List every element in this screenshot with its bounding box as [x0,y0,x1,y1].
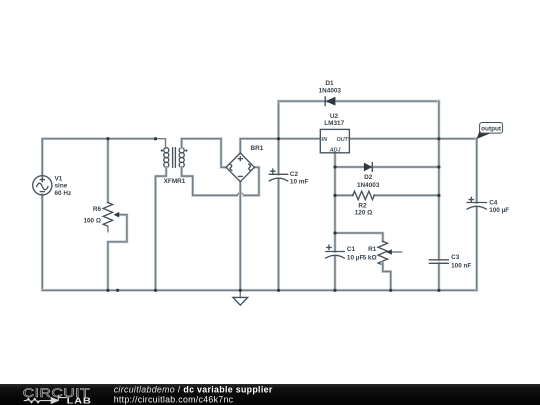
node OUT / D1 junction [437,137,440,140]
node C1 bottom junction [333,289,336,292]
diode D2 [335,163,439,189]
svg-text:C4: C4 [489,199,498,206]
svg-text:R1: R1 [368,246,377,253]
potentiometer R6 [83,203,126,291]
node R1 bottom junction [389,289,392,292]
transformer XFMR1 [161,148,188,186]
node C3 bottom junction [437,289,440,292]
wire C2 bottom [277,180,280,291]
svg-text:100 Ω: 100 Ω [83,217,101,224]
svg-text:C1: C1 [347,246,356,253]
svg-text:ADJ: ADJ [329,147,342,153]
node D2 / OUT junction [437,165,440,168]
wire C2 top [277,139,280,175]
capacitor C4 [467,197,509,214]
node ADJ / C1 / R1 junction [333,231,336,234]
wire bridge bottom to ground [239,182,242,291]
svg-text:C2: C2 [290,171,299,178]
wire secondary bottom to bridge right [244,167,259,195]
svg-text:U2: U2 [330,113,339,120]
svg-text:5 kΩ: 5 kΩ [363,254,377,261]
svg-text:V1: V1 [55,175,63,182]
resistor R2 [335,191,439,216]
svg-text:D2: D2 [364,174,373,181]
svg-text:OUT: OUT [337,137,349,143]
svg-text:120 Ω: 120 Ω [355,210,373,217]
capacitor C2 [269,169,308,185]
svg-text:1N4003: 1N4003 [357,182,380,189]
svg-text:BR1: BR1 [251,145,264,152]
node extra dot on rail [116,289,119,292]
op-amp U2 LM317 [320,113,349,154]
svg-text:10 µF: 10 µF [347,254,364,261]
svg-text:IN: IN [322,137,327,143]
svg-text:R6: R6 [93,206,102,213]
footer text [114,385,273,405]
wire D1 left stub [277,101,280,139]
svg-text:100 nF: 100 nF [451,262,471,269]
node output flag [477,123,503,140]
wire ADJ stub down [334,153,337,233]
svg-text:10 mF: 10 mF [290,178,309,185]
wire IN rail to LM317 [279,137,321,140]
voltage source V1 [33,175,72,197]
svg-text:circuitlabdemo / dc variable s: circuitlabdemo / dc variable supplier [114,385,273,395]
wire R1 bottom jog [383,263,391,290]
potentiometer R1 [363,241,402,265]
node R6 bottom junction [106,289,109,292]
wire primary top stub [156,139,166,148]
wire top rail left (V1 to transformer) [42,139,155,176]
wire R1 top [335,233,383,241]
ground [233,290,248,305]
svg-text:100 µF: 100 µF [489,207,509,214]
node C2 bottom junction [277,289,280,292]
footer bar [0,384,540,405]
svg-text:D1: D1 [325,80,334,87]
node R6 top junction [106,137,109,140]
wire secondary top to bridge left [182,139,227,168]
svg-text:1N4003: 1N4003 [319,88,342,95]
wire bridge top stub [240,139,278,153]
svg-text:sine: sine [55,183,68,190]
wire OUT net vertical [437,139,440,260]
capacitor C1 [326,245,364,261]
capacitor C3 [429,254,471,270]
wire D1 right stub [437,101,440,139]
wire R6 top lead [107,139,110,203]
wire primary bottom return [156,167,167,290]
footer logo CIRCUIT LAB [23,387,92,405]
node primary return on rail [154,289,157,292]
wire OUT rail [349,137,476,140]
wire secondary bottom [182,167,237,195]
svg-text:LM317: LM317 [324,120,344,127]
wire C4 bottom [475,208,478,291]
node R2 / OUT junction [437,194,440,197]
svg-text:LAB: LAB [67,397,92,405]
node ADJ / D2 junction [333,165,336,168]
wire C1 top [334,233,337,252]
svg-text:C3: C3 [451,254,460,261]
node transformer top junction [154,137,157,140]
wire C1 bottom [334,257,337,291]
wire hop over bridge bottom wire [237,193,244,196]
node C2 / D1 junction [277,137,280,140]
svg-text:XFMR1: XFMR1 [164,178,186,185]
svg-text:http://circuitlab.com/c46k7nc: http://circuitlab.com/c46k7nc [114,395,234,405]
wire output net vertical [475,139,478,203]
wire bottom ground rail [42,289,476,292]
svg-text:R2: R2 [358,202,367,209]
node ground junction [239,289,242,292]
svg-text:output: output [481,126,502,133]
wire C3 bottom [437,263,440,290]
wire left rail bottom (V1 to ground rail) [41,195,44,291]
bridge rectifier BR1 [226,145,264,182]
node ADJ / R2 junction [333,194,336,197]
svg-text:60 Hz: 60 Hz [55,190,72,197]
diode D1 [279,80,439,105]
